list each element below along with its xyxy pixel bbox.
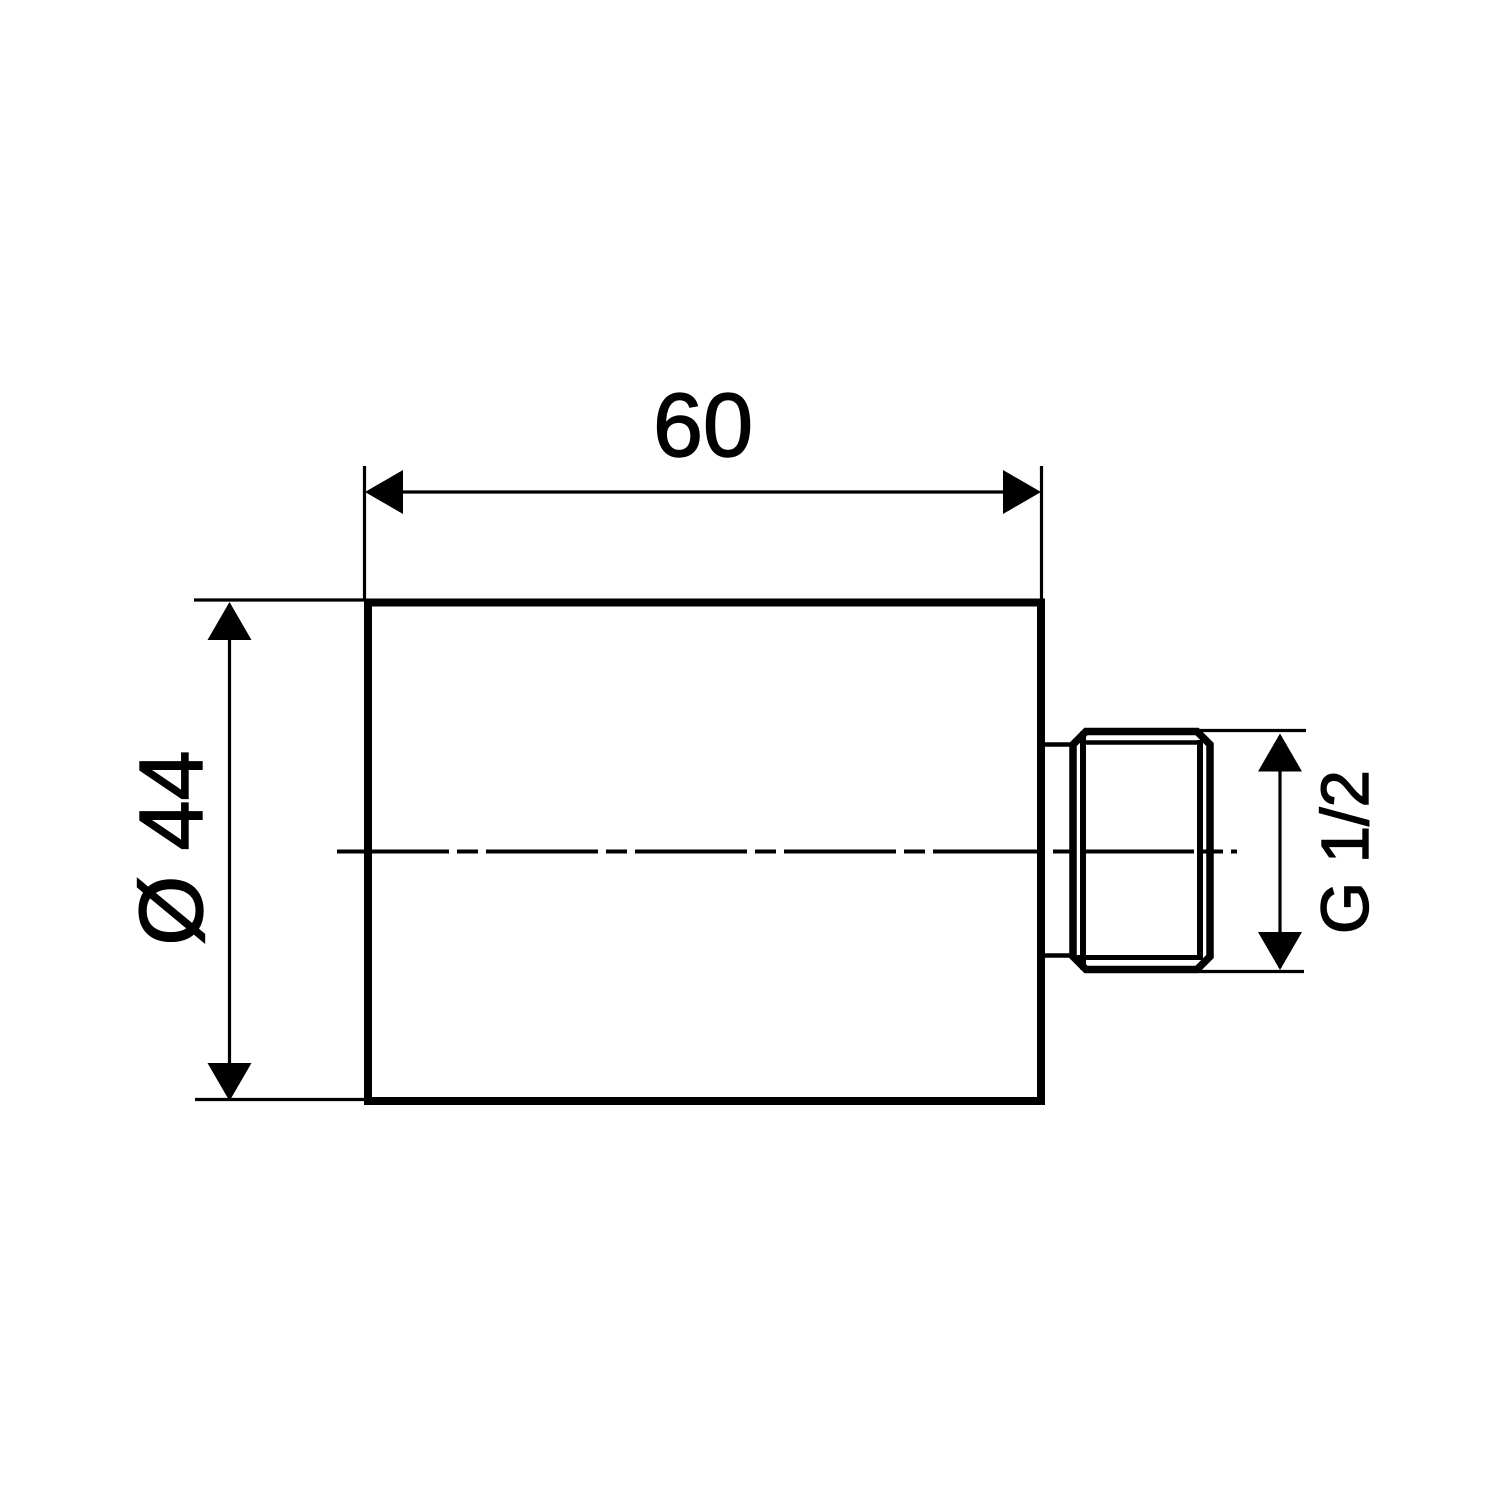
dim 44 extension line bottom <box>195 1098 368 1101</box>
dim 44 arrow bottom <box>208 1063 252 1101</box>
dim G12 arrow bottom <box>1258 932 1302 970</box>
dim G12 line <box>1278 736 1281 968</box>
body outline (cylinder side view) <box>368 603 1041 1102</box>
centerline <box>337 850 1237 854</box>
thread inner line left <box>1080 732 1086 970</box>
dim 60 arrow right <box>1003 470 1041 514</box>
dim 60 line <box>368 490 1038 493</box>
svg-text:Ø 44: Ø 44 <box>122 750 222 945</box>
thread outer contour (chamfered) <box>1073 732 1210 970</box>
thread inner line right <box>1197 740 1203 960</box>
dim 60 extension line right <box>1040 466 1043 599</box>
dim 60 arrow left <box>365 470 403 514</box>
thread root line bottom <box>1073 955 1200 960</box>
dim G12 arrow top <box>1258 734 1302 772</box>
dim G12 extension line bottom <box>1199 970 1304 973</box>
svg-text:60: 60 <box>653 376 753 476</box>
svg-text:G 1/2: G 1/2 <box>1308 770 1383 934</box>
step top line <box>1043 742 1074 747</box>
thread root line top <box>1083 740 1200 745</box>
dim 60 extension line left <box>363 466 366 600</box>
step bottom line <box>1043 953 1074 958</box>
dim 44 arrow top <box>208 602 252 640</box>
dim G12 extension line top <box>1152 729 1306 732</box>
dim 44 extension line top <box>194 598 366 601</box>
dim 44 line <box>228 605 231 1098</box>
